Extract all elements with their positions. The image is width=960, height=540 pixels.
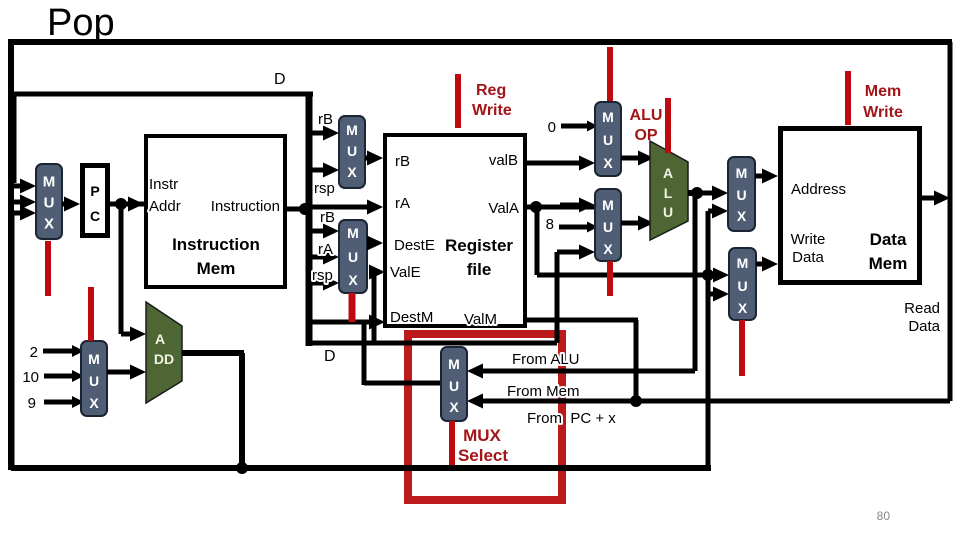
svg-text:M: M xyxy=(736,165,748,181)
svg-text:U: U xyxy=(737,278,747,294)
svg-text:U: U xyxy=(449,378,459,394)
svg-text:Data: Data xyxy=(908,318,940,335)
svg-text:From PC + x: From PC + x xyxy=(527,410,616,427)
svg-text:Write: Write xyxy=(791,231,826,248)
svg-text:L: L xyxy=(664,185,673,201)
svg-text:Addr: Addr xyxy=(149,198,181,215)
svg-text:ValA: ValA xyxy=(488,200,519,217)
svg-text:Instruction: Instruction xyxy=(211,198,280,215)
svg-text:DestE: DestE xyxy=(394,237,435,254)
svg-text:Reg: Reg xyxy=(476,82,506,99)
svg-text:8: 8 xyxy=(546,216,554,233)
svg-text:Write: Write xyxy=(863,104,903,121)
svg-text:From Mem: From Mem xyxy=(507,383,580,400)
svg-text:ValE: ValE xyxy=(390,264,421,281)
svg-text:M: M xyxy=(347,225,359,241)
svg-text:M: M xyxy=(737,255,749,271)
svg-text:U: U xyxy=(603,132,613,148)
svg-text:U: U xyxy=(663,204,673,220)
svg-text:A: A xyxy=(155,331,165,347)
svg-text:D: D xyxy=(274,71,286,88)
svg-text:M: M xyxy=(448,356,460,372)
svg-text:M: M xyxy=(43,174,56,191)
svg-text:rB: rB xyxy=(320,209,335,226)
svg-text:C: C xyxy=(90,208,100,224)
svg-text:X: X xyxy=(737,208,747,224)
svg-text:Select: Select xyxy=(458,446,508,465)
svg-text:80: 80 xyxy=(877,509,891,523)
svg-text:rB: rB xyxy=(318,111,333,128)
svg-text:DestM: DestM xyxy=(390,309,433,326)
svg-text:rA: rA xyxy=(318,241,333,258)
svg-text:Write: Write xyxy=(472,102,512,119)
svg-text:M: M xyxy=(346,122,358,138)
svg-text:file: file xyxy=(467,260,492,279)
svg-text:Read: Read xyxy=(904,300,940,317)
svg-text:X: X xyxy=(603,155,613,171)
svg-text:P: P xyxy=(90,183,99,199)
svg-text:Mem: Mem xyxy=(869,254,908,273)
svg-text:M: M xyxy=(602,197,614,213)
svg-text:Address: Address xyxy=(791,181,846,198)
svg-text:ALU: ALU xyxy=(630,107,663,124)
svg-text:Pop: Pop xyxy=(47,2,115,44)
svg-text:9: 9 xyxy=(28,395,36,412)
svg-text:valB: valB xyxy=(489,152,518,169)
svg-text:rsp: rsp xyxy=(312,267,333,284)
svg-text:OP: OP xyxy=(634,127,657,144)
svg-text:U: U xyxy=(89,373,99,389)
svg-text:Mem: Mem xyxy=(865,83,901,100)
svg-text:M: M xyxy=(88,351,100,367)
svg-text:Data: Data xyxy=(792,249,824,266)
svg-text:2: 2 xyxy=(30,344,38,361)
svg-text:X: X xyxy=(348,272,358,288)
svg-text:MUX: MUX xyxy=(463,426,501,445)
svg-text:Mem: Mem xyxy=(197,259,236,278)
svg-text:rsp: rsp xyxy=(314,180,335,197)
svg-text:Instr: Instr xyxy=(149,176,178,193)
svg-text:U: U xyxy=(736,187,746,203)
svg-text:0: 0 xyxy=(548,119,556,136)
svg-text:Data: Data xyxy=(870,230,907,249)
svg-text:X: X xyxy=(44,216,54,233)
svg-text:X: X xyxy=(347,164,357,180)
svg-text:A: A xyxy=(663,165,673,181)
svg-text:X: X xyxy=(738,300,748,316)
svg-text:Register: Register xyxy=(445,236,513,255)
svg-text:rA: rA xyxy=(395,195,410,212)
svg-text:X: X xyxy=(449,399,459,415)
svg-text:Instruction: Instruction xyxy=(172,235,260,254)
svg-text:X: X xyxy=(603,241,613,257)
svg-text:rB: rB xyxy=(395,153,410,170)
svg-text:U: U xyxy=(348,249,358,265)
svg-text:ValM: ValM xyxy=(464,311,497,328)
svg-text:U: U xyxy=(347,143,357,159)
svg-text:U: U xyxy=(44,195,55,212)
svg-text:U: U xyxy=(603,219,613,235)
svg-text:M: M xyxy=(602,109,614,125)
svg-text:10: 10 xyxy=(22,369,39,386)
svg-text:DD: DD xyxy=(154,351,174,367)
svg-text:X: X xyxy=(89,395,99,411)
svg-text:D: D xyxy=(324,348,336,365)
svg-text:From ALU: From ALU xyxy=(512,351,580,368)
